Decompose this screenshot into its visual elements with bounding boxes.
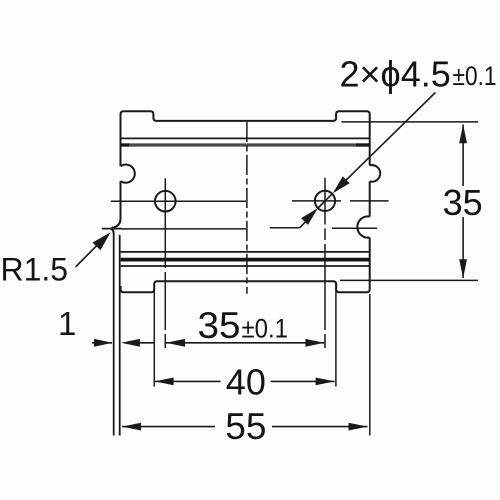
body outline bottom: [121, 238, 370, 293]
right upper notch: [370, 165, 381, 182]
lip arc lower: [111, 229, 114, 234]
svg-text:±0.1: ±0.1: [242, 313, 289, 343]
arrow 1-dim right: [121, 339, 140, 347]
svg-text:35: 35: [443, 182, 483, 223]
ext 55 right: [369, 294, 371, 436]
left notch: [121, 165, 135, 183]
arrow 1-dim left: [94, 339, 113, 347]
leader chord through hole: [318, 194, 332, 208]
arrow 40 left: [155, 378, 174, 386]
arrow 35pm right: [305, 339, 324, 347]
arrow 35 up: [459, 124, 467, 143]
svg-text:±0.1: ±0.1: [453, 61, 497, 91]
hole right h-centerline: [292, 200, 389, 202]
horizontal chain line left: [121, 228, 246, 230]
leader hole: [334, 93, 435, 192]
hole right v-centerline: [324, 178, 326, 348]
bottom thick band: [121, 258, 370, 262]
face line upper: [121, 137, 370, 139]
lip outer wall / 55 ext left: [113, 233, 115, 436]
right lower notch: [357, 216, 369, 237]
hole left h-centerline: [111, 200, 246, 202]
svg-text:35: 35: [198, 305, 241, 346]
arrow leader lower: [301, 208, 318, 225]
top gray band: [121, 143, 369, 146]
arrow R1.5: [93, 232, 111, 250]
svg-text:40: 40: [226, 361, 266, 402]
center chain line: [246, 122, 248, 294]
lip arc: [112, 218, 121, 228]
hole left: [155, 191, 176, 212]
dim line 40: [155, 380, 335, 382]
svg-text:2×ϕ4.5: 2×ϕ4.5: [340, 54, 451, 95]
horizontal chain line right: [270, 227, 377, 230]
leader R1.5: [76, 240, 103, 267]
arrow 40 right: [316, 378, 335, 386]
body outline top: [121, 111, 370, 166]
dim line 55: [122, 426, 368, 428]
dim line 35pm: [166, 342, 324, 344]
lip tick: [102, 228, 122, 230]
body edge lower / 1 ext: [119, 235, 121, 436]
dim line 35 vertical right: [462, 125, 464, 279]
svg-text:R1.5: R1.5: [1, 251, 69, 287]
face line lower thin1: [121, 251, 370, 253]
arrow 55 right: [349, 423, 368, 431]
hole left v-centerline: [164, 178, 166, 348]
dim line 1 tails: [92, 342, 155, 344]
ext 35 bottom right: [340, 279, 478, 281]
svg-text:1: 1: [58, 305, 76, 342]
hole right: [315, 191, 335, 211]
wire left edge: [120, 181, 122, 218]
top band caps: [121, 143, 370, 146]
ext 40 right: [335, 283, 337, 387]
arrow 35 down: [459, 259, 467, 278]
arrow 55 left: [122, 423, 141, 431]
face line lower thin2: [121, 265, 370, 267]
arrow leader upper: [333, 176, 350, 193]
wire right edge: [369, 181, 371, 216]
ext 35 top right: [342, 121, 479, 123]
ext 40 left: [153, 283, 155, 387]
svg-text:55: 55: [225, 406, 266, 447]
leader lower tail: [300, 222, 306, 228]
arrow 35pm left: [166, 339, 185, 347]
